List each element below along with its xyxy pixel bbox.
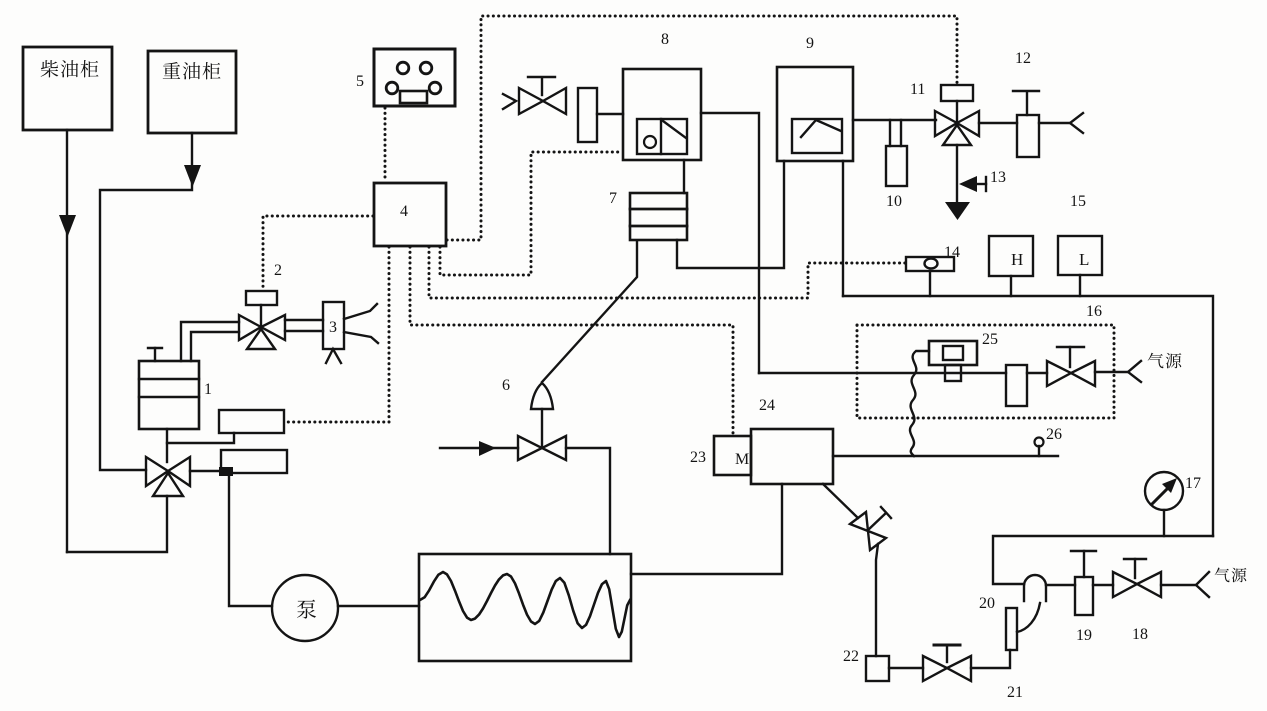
wire: 21 to rotameter 20 xyxy=(971,650,1010,668)
component 1: mixing tank xyxy=(139,361,199,429)
arrow on diesel line xyxy=(59,215,76,237)
globe valve before filter of 8 xyxy=(519,88,543,114)
svg-text:3: 3 xyxy=(329,319,337,336)
wire: junction down to pump xyxy=(229,476,272,606)
component 10: sensor pocket xyxy=(889,120,891,146)
arrow on heavy oil line xyxy=(184,165,201,187)
svg-text:18: 18 xyxy=(1132,626,1148,643)
wire: 9 outlet to three-way valve 11 xyxy=(853,119,936,121)
valve 2 three-way with actuator xyxy=(239,315,261,340)
valve 27 angle valve xyxy=(850,512,868,531)
wire: branch to level device rect1 xyxy=(167,433,234,443)
wire: tank1 top to valve 2 double pipe xyxy=(181,322,239,361)
component 13: drain arrow mark xyxy=(959,176,977,192)
label 重油柜 (heavy oil tank) xyxy=(163,62,180,79)
label 气源 bottom (air source) xyxy=(1215,568,1230,583)
svg-text:L: L xyxy=(1079,250,1089,269)
wire: heater outlet to component 24 xyxy=(631,484,782,574)
actuator 2 xyxy=(246,291,277,305)
wire: dome to 19 xyxy=(1046,584,1075,586)
wire: 22 to valve 21 xyxy=(889,667,923,669)
svg-text:14: 14 xyxy=(944,244,960,261)
fork: steam source end near valve 8 inlet xyxy=(503,94,516,109)
squiggle cable from 25 xyxy=(910,351,929,456)
wire: 18 to fork xyxy=(1161,584,1196,586)
dotted: 4 right to top line to valve 11 actuator xyxy=(447,16,957,240)
component 9: temperature controller xyxy=(777,67,853,161)
alarm bus line xyxy=(843,296,1213,536)
wire: diesel tank outlet down xyxy=(66,130,68,552)
component: level switch lower rect xyxy=(221,450,287,473)
valve 11: three-way valve xyxy=(935,111,957,136)
component 15: alarm H box xyxy=(989,236,1033,276)
wire: filter to component 8 xyxy=(597,113,623,115)
valve 6 control valve xyxy=(518,436,542,460)
air shut valve in box 16 xyxy=(1047,361,1071,386)
component 24: actuator unit xyxy=(751,429,833,484)
dotted enclosure box 16 xyxy=(857,325,1114,418)
wire: 24 right output line xyxy=(833,455,1058,457)
svg-text:4: 4 xyxy=(400,203,408,220)
svg-text:10: 10 xyxy=(886,193,902,210)
svg-text:21: 21 xyxy=(1007,684,1023,701)
svg-text:9: 9 xyxy=(806,35,814,52)
component 4: controller box xyxy=(374,183,446,246)
alarm L box xyxy=(1058,236,1102,275)
air filter in box 16 xyxy=(1006,365,1027,406)
valve 21 shut-off xyxy=(923,656,947,681)
svg-text:17: 17 xyxy=(1185,475,1201,492)
valve 18 shut-off xyxy=(1113,572,1137,597)
component 7: junction box xyxy=(630,193,687,240)
svg-text:23: 23 xyxy=(690,449,706,466)
dotted: 4 drop1 to level rect1 xyxy=(285,247,389,422)
fork: air source 气源 top xyxy=(1128,361,1141,382)
wire: valve2 to component 3 double pipe xyxy=(285,319,323,321)
wire: tank1 bottom to three-way valve xyxy=(166,429,168,462)
wire: heavy oil outlet down xyxy=(100,133,192,470)
svg-text:24: 24 xyxy=(759,397,775,414)
component 20/21 rotameter tube xyxy=(1006,608,1017,650)
gauge 17 xyxy=(1145,472,1183,510)
svg-text:15: 15 xyxy=(1070,193,1086,210)
component 20 dome regulator xyxy=(1024,575,1046,601)
wire: 9 right drop to alarm bus xyxy=(842,161,844,296)
svg-text:25: 25 xyxy=(982,331,998,348)
pump 泵 xyxy=(272,575,338,641)
svg-text:6: 6 xyxy=(502,377,510,394)
heater coil xyxy=(420,572,630,637)
svg-text:22: 22 xyxy=(843,648,859,665)
tank: heavy oil tank 重油柜 xyxy=(148,51,236,133)
junction blob xyxy=(219,467,233,476)
component 8: viscosity controller xyxy=(623,69,701,160)
wire: valve6 outlet down to heater xyxy=(566,448,610,554)
wire: 7 right drop to 9 drop xyxy=(677,161,784,268)
svg-text:19: 19 xyxy=(1076,627,1092,644)
valve 6 diaphragm actuator xyxy=(541,409,543,448)
steam inlet line with arrow xyxy=(440,447,518,449)
svg-text:2: 2 xyxy=(274,262,282,279)
svg-text:5: 5 xyxy=(356,73,364,90)
component 22: junction pot xyxy=(866,656,889,681)
component 26: position pointer xyxy=(1038,446,1040,456)
component 3: filter xyxy=(323,302,344,349)
tank 1 vent cap xyxy=(154,348,156,361)
svg-text:26: 26 xyxy=(1046,426,1062,443)
component 25: I/P converter xyxy=(929,341,977,365)
component 14: solenoid xyxy=(906,257,954,271)
svg-text:1: 1 xyxy=(204,381,212,398)
fork: air source 气源 bottom xyxy=(1196,572,1209,597)
arc from rotameter to dome xyxy=(1017,603,1040,632)
wire: 19 to valve 18 xyxy=(1093,584,1113,586)
dotted: 4 to valve 2 actuator xyxy=(263,216,373,290)
label 柴油柜 (diesel tank) xyxy=(41,60,59,77)
svg-text:H: H xyxy=(1011,250,1023,269)
wire: 24 diagonal to valve 27 xyxy=(823,484,858,518)
label 气源 top (air source) xyxy=(1148,353,1164,369)
svg-text:20: 20 xyxy=(979,595,995,612)
wire: valve 11 to valve 12 xyxy=(979,122,1017,124)
component 3 outlet pipes with hooks xyxy=(344,304,377,319)
fork: pipe end after 12 xyxy=(1070,113,1083,133)
wire: valve to junction xyxy=(190,470,229,472)
svg-text:12: 12 xyxy=(1015,50,1031,67)
component 3 drain legs xyxy=(326,349,341,363)
wire: pump to heater xyxy=(338,605,419,607)
component 5: control panel xyxy=(374,49,455,106)
svg-text:11: 11 xyxy=(910,81,925,98)
wire: 8 down to 7 xyxy=(683,160,685,193)
tank: diesel oil tank 柴油柜 xyxy=(23,47,112,130)
dotted: 5 to 4 xyxy=(384,108,387,182)
svg-text:M: M xyxy=(735,451,749,468)
valve 12 shut-off xyxy=(1017,115,1039,157)
wire: right air branch line xyxy=(993,536,1213,584)
dotted: 4 drop4 to component 8 meter xyxy=(440,152,621,275)
svg-text:8: 8 xyxy=(661,31,669,48)
wire: actuator 6 impulse line to component 7 xyxy=(542,241,637,382)
label 泵 (pump) xyxy=(297,600,316,619)
filter before component 8 xyxy=(578,88,597,142)
component: level switch upper rect xyxy=(219,410,284,433)
wire: valve 12 to fork xyxy=(1039,122,1070,124)
actuator 11 xyxy=(941,85,973,101)
component 19 air filter xyxy=(1075,577,1093,615)
dotted: 4 drop2 to motor 23 xyxy=(410,247,733,435)
wire: air line through box 16 xyxy=(759,372,1006,374)
heater box xyxy=(419,554,631,661)
svg-text:7: 7 xyxy=(609,190,617,207)
wire: 27 down to 22 xyxy=(876,544,878,656)
svg-text:13: 13 xyxy=(990,169,1006,186)
dotted: 4 drop3 to component 14 xyxy=(429,247,905,298)
component 23: motor M xyxy=(714,436,751,475)
three-way valve under tank 1 xyxy=(146,457,168,486)
wire: 8 right to down to box16 line xyxy=(701,113,759,373)
svg-text:16: 16 xyxy=(1086,303,1102,320)
wire: bottom joining line diesel to three-way valve xyxy=(67,496,167,552)
wire: valve 11 down with arrow xyxy=(956,145,958,205)
